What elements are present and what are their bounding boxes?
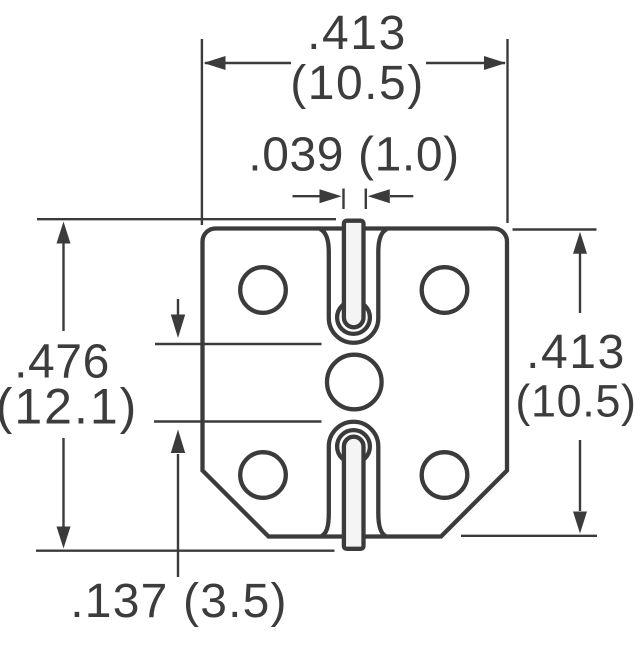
center hole <box>327 355 382 410</box>
body outline (seat plate, chamfered bottom corners) <box>203 228 508 536</box>
bottom lead bend ring <box>337 430 370 463</box>
dimension line right-height lower segment <box>579 440 581 511</box>
dimension line height lower segment <box>62 438 64 527</box>
hole bottom-left <box>240 452 286 498</box>
extension line right-height bottom <box>461 535 597 537</box>
dimension line top-width left segment <box>205 62 291 64</box>
top lead slot outline <box>320 229 387 343</box>
arrowhead lead-width right <box>368 189 390 203</box>
hole bottom-right <box>422 452 468 498</box>
dimension line top-width right segment <box>426 62 505 64</box>
arrow lead-width left shaft <box>293 195 321 197</box>
arrowhead right-height up <box>573 232 587 254</box>
arrow lead-gap down shaft <box>177 299 179 315</box>
extension line height top (left dim) <box>37 218 336 220</box>
bottom lead (pin strip) <box>344 437 364 549</box>
dimension line right-height upper segment <box>579 253 581 313</box>
arrowhead height up <box>57 222 71 244</box>
tick lead-width left <box>342 189 344 210</box>
arrowhead height down <box>57 527 71 549</box>
arrow lead-gap up shaft <box>177 454 179 577</box>
extension line right-height top <box>513 228 597 230</box>
bottom lead slot outline <box>322 422 386 536</box>
arrow lead-width right shaft <box>390 195 413 197</box>
svg-text:(10.5): (10.5) <box>515 376 636 427</box>
extension line lead-gap upper <box>155 343 322 345</box>
svg-text:.039 (1.0): .039 (1.0) <box>248 129 459 182</box>
tick lead-width right <box>365 189 367 210</box>
svg-text:(10.5): (10.5) <box>290 57 424 110</box>
svg-text:.413: .413 <box>526 326 626 379</box>
top lead (pin strip) <box>344 221 364 328</box>
dimension line height upper segment <box>62 243 64 331</box>
arrowhead lead-gap up <box>171 430 185 454</box>
extension line lead-gap lower <box>154 420 322 422</box>
arrowhead lead-width left <box>320 189 342 203</box>
arrowhead lead-gap down <box>171 315 185 339</box>
extension line height bottom (left dim) <box>36 550 335 552</box>
extension line top-width right <box>506 39 508 223</box>
hole top-right <box>422 267 468 313</box>
svg-text:.137 (3.5): .137 (3.5) <box>70 575 287 628</box>
svg-text:(12.1): (12.1) <box>0 379 138 435</box>
arrowhead top-width right <box>484 56 506 70</box>
svg-text:.413: .413 <box>307 7 407 60</box>
hole top-left <box>240 267 286 313</box>
arrowhead top-width left <box>204 56 226 70</box>
top lead bend ring <box>337 301 370 334</box>
arrowhead right-height down <box>573 512 587 534</box>
extension line top-width left <box>201 39 203 225</box>
